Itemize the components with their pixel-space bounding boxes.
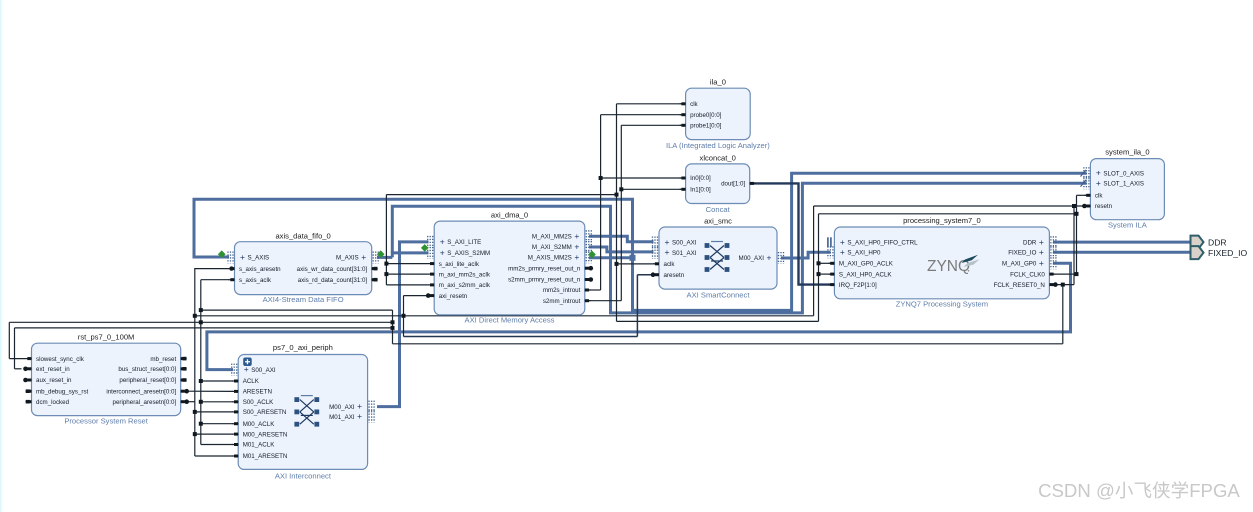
svg-text:FIXED_IO: FIXED_IO xyxy=(1208,248,1247,258)
svg-text:+: + xyxy=(361,252,366,262)
svg-text:+: + xyxy=(1039,258,1044,268)
svg-text:S_AXIS: S_AXIS xyxy=(248,255,270,262)
pin ps7_0_axi_periph.ARESETN xyxy=(232,390,238,392)
wire net clk ila riser xyxy=(616,104,618,322)
status diamond fifo.S_AXIS xyxy=(218,250,226,258)
svg-text:aux_reset_in: aux_reset_in xyxy=(36,377,72,384)
pin axi_dma_0.M_AXIS_MM2S xyxy=(585,251,587,263)
pin rst_ps7_0_100M.aux_reset_in xyxy=(26,379,32,381)
icon periph crossbar xyxy=(294,397,299,402)
pin ps7_0_axi_periph.M00_ARESETN xyxy=(232,433,238,435)
status diamond fifo.M_AXIS xyxy=(377,250,385,258)
svg-text:M_AXIS: M_AXIS xyxy=(336,255,359,262)
pin rst_ps7_0_100M.interconnect_aresetn[0:0] xyxy=(181,390,187,392)
svg-text:xlconcat_0: xlconcat_0 xyxy=(700,153,736,162)
svg-text:aresetn: aresetn xyxy=(664,272,685,279)
svg-text:mb_debug_sys_rst: mb_debug_sys_rst xyxy=(36,388,89,395)
wire net clk trunk lower right xyxy=(617,320,819,322)
wire net periph_aresetn source stub xyxy=(187,401,195,403)
wire net DDR ps7.DDR to external port xyxy=(1053,241,1190,244)
pin rst_ps7_0_100M.bus_struct_reset[0:0] xyxy=(181,368,187,370)
block axis_data_fifo_0 xyxy=(235,242,372,295)
svg-text:ext_reset_in: ext_reset_in xyxy=(36,366,70,373)
svg-text:M_AXIS_MM2S: M_AXIS_MM2S xyxy=(528,255,572,262)
wire net periph_aresetn vertical xyxy=(194,268,196,456)
pin axi_dma_0.S_AXIS_S2MM xyxy=(427,247,429,259)
svg-text:S_AXI_HP0_FIFO_CTRL: S_AXI_HP0_FIFO_CTRL xyxy=(847,240,918,247)
pin system_ila_0.clk xyxy=(1084,194,1090,196)
svg-text:s2mm_prmry_reset_out_n: s2mm_prmry_reset_out_n xyxy=(508,277,581,284)
pin rst_ps7_0_100M.mb_debug_sys_rst xyxy=(26,390,32,392)
svg-text:S00_AXI: S00_AXI xyxy=(251,367,276,374)
svg-text:S_AXI_HP0_ACLK: S_AXI_HP0_ACLK xyxy=(839,271,892,278)
svg-text:ps7_0_axi_periph: ps7_0_axi_periph xyxy=(273,343,333,352)
wire net s2mm_introut to concat.In1 and ila.probe1 xyxy=(589,300,621,302)
pin axi_dma_0.m_axi_s2mm_aclk xyxy=(428,284,434,286)
svg-text:ZYNQ7 Processing System: ZYNQ7 Processing System xyxy=(896,300,988,309)
pin rst_ps7_0_100M.ext_reset_in xyxy=(26,368,32,370)
crossing marks at system_ila SLOT pins xyxy=(1081,170,1087,187)
pin axis_data_fifo_0.s_axis_aresetn xyxy=(229,268,235,270)
pin axi_smc.S01_AXI xyxy=(652,247,654,259)
svg-text:FCLK_CLK0: FCLK_CLK0 xyxy=(1010,271,1045,278)
svg-text:clk: clk xyxy=(1095,193,1103,200)
pin rst_ps7_0_100M.peripheral_reset[0:0] xyxy=(181,379,187,381)
svg-text:S00_AXI: S00_AXI xyxy=(672,240,697,247)
pin xlconcat_0.In0[0:0] xyxy=(680,177,686,179)
pin ps7_0_axi_periph.M01_ARESETN xyxy=(232,455,238,457)
wire net mm2s_stream junction down-right to system_ila.SLOT_0_AXIS xyxy=(633,173,1087,310)
svg-text:system_ila_0: system_ila_0 xyxy=(1105,148,1149,157)
block ps7_0_axi_periph xyxy=(238,355,367,470)
svg-text:M_AXI_MM2S: M_AXI_MM2S xyxy=(532,234,572,241)
svg-text:aclk: aclk xyxy=(664,261,676,268)
svg-text:s2mm_introut: s2mm_introut xyxy=(543,298,581,305)
pin rst_ps7_0_100M.dcm_locked xyxy=(26,401,32,403)
wire net clk periph ACLK branches xyxy=(201,380,233,382)
svg-text:axis_rd_data_count[31:0]: axis_rd_data_count[31:0] xyxy=(298,277,368,284)
wire net aresetn trunk xyxy=(195,315,814,317)
pin ps7_0_axi_periph.S00_ACLK xyxy=(232,401,238,403)
pin ps7_0_axi_periph.ACLK xyxy=(232,380,238,382)
svg-text:interconnect_aresetn[0:0]: interconnect_aresetn[0:0] xyxy=(106,388,176,395)
wire net clk ps7.FCLK_CLK0 to system_ila.clk xyxy=(1053,273,1077,275)
svg-text:M01_ARESETN: M01_ARESETN xyxy=(243,453,288,460)
external port DDR xyxy=(1191,236,1204,249)
pin axis_data_fifo_0.S_AXIS xyxy=(227,252,229,264)
block axi_dma_0 xyxy=(434,221,585,315)
wire net periph_aresetn periph branches xyxy=(195,411,233,413)
pin ps7_0_axi_periph.M00_ACLK xyxy=(232,423,238,425)
svg-text:ILA (Integrated Logic Analyzer: ILA (Integrated Logic Analyzer) xyxy=(666,141,770,150)
svg-text:s_axi_lite_aclk: s_axi_lite_aclk xyxy=(439,261,480,268)
svg-text:FCLK_RESET0_N: FCLK_RESET0_N xyxy=(994,282,1045,289)
pin axi_smc.aresetn xyxy=(653,274,659,276)
svg-text:+: + xyxy=(1039,237,1044,247)
pin ila_0.clk xyxy=(680,103,686,105)
svg-text:axis_wr_data_count[31:0]: axis_wr_data_count[31:0] xyxy=(297,266,368,273)
wire net clk ps7 aclk branches xyxy=(819,262,831,264)
svg-text:M00_ACLK: M00_ACLK xyxy=(243,421,276,428)
wire net smc_m00 smc.M00_AXI to ps7.S_AXI_HP0 xyxy=(781,252,831,258)
wire net clk trunk upper xyxy=(386,194,616,196)
svg-text:rst_ps7_0_100M: rst_ps7_0_100M xyxy=(78,333,135,342)
wire net m_axi_gp0 ps7.M_AXI_GP0 to periph.S00_AXI xyxy=(207,263,1071,369)
wire net clk mid-left link xyxy=(201,309,393,311)
svg-text:+: + xyxy=(357,411,362,421)
svg-text:ila_0: ila_0 xyxy=(710,78,726,87)
svg-text:S01_AXI: S01_AXI xyxy=(672,250,697,257)
wire net clk smc.aclk branch xyxy=(617,263,655,265)
wire net mm2s_stream junction up-left to fifo.S_AXIS xyxy=(194,199,633,257)
pin axi_dma_0.s2mm_prmry_reset_out_n xyxy=(585,279,591,281)
svg-text:+: + xyxy=(767,253,772,263)
svg-text:CSDN @: CSDN @ xyxy=(1038,480,1115,501)
wire net clk fifo.s_axis_aclk branch xyxy=(201,279,229,281)
svg-text:AXI SmartConnect: AXI SmartConnect xyxy=(687,291,751,300)
pin processing_system7_0.S_AXI_HP0_FIFO_CTRL xyxy=(827,237,829,247)
pin system_ila_0.SLOT_1_AXIS xyxy=(1083,177,1085,189)
pin axi_dma_0.s_axi_lite_aclk xyxy=(428,263,434,265)
svg-text:mm2s_prmry_reset_out_n: mm2s_prmry_reset_out_n xyxy=(508,265,581,272)
svg-text:peripheral_aresetn[0:0]: peripheral_aresetn[0:0] xyxy=(113,399,177,406)
svg-text:+: + xyxy=(1096,168,1101,178)
pin axi_smc.S00_AXI xyxy=(652,237,654,249)
pin ps7_0_axi_periph.M01_AXI xyxy=(368,411,370,423)
wire net clk left distribution vertical xyxy=(200,280,202,445)
svg-text:M01_ACLK: M01_ACLK xyxy=(243,442,276,449)
status diamond dma.M_AXIS_MM2S xyxy=(588,251,596,259)
pin axi_smc.M00_AXI xyxy=(778,252,780,264)
svg-text:probe1[0:0]: probe1[0:0] xyxy=(690,123,722,130)
pin ps7_0_axi_periph.S00_AXI xyxy=(231,364,233,376)
svg-text:S00_ARESETN: S00_ARESETN xyxy=(243,409,287,416)
svg-text:M01_AXI: M01_AXI xyxy=(329,414,355,421)
pin processing_system7_0.S_AXI_HP0_ACLK xyxy=(828,273,834,275)
wire net fclk_reset to rst.ext_reset_in xyxy=(15,327,393,329)
pin axi_dma_0.mm2s_introut xyxy=(585,289,591,291)
svg-text:mb_reset: mb_reset xyxy=(150,356,176,363)
pin processing_system7_0.M_AXI_GP0 xyxy=(1050,257,1052,269)
svg-text:+: + xyxy=(574,252,579,262)
svg-text:AXI Direct Memory Access: AXI Direct Memory Access xyxy=(465,316,555,325)
wire net aresetn dma.axi_resetn branch xyxy=(403,296,405,337)
junction dot fifo.s_axis_aresetn pin xyxy=(229,266,233,270)
svg-text:System ILA: System ILA xyxy=(1108,221,1148,230)
svg-text:ARESETN: ARESETN xyxy=(243,389,272,396)
svg-text:M00_ARESETN: M00_ARESETN xyxy=(243,431,288,438)
wire net fclk_reset ps7.FCLK_RESET0_N pin run xyxy=(1053,284,1074,286)
svg-text:Concat: Concat xyxy=(706,205,731,214)
svg-text:axi_smc: axi_smc xyxy=(704,216,732,225)
svg-text:In1[0:0]: In1[0:0] xyxy=(690,187,711,194)
svg-text:FPGA: FPGA xyxy=(1189,480,1240,501)
wire net mm2s_stream dma.M_AXIS_MM2S to junction xyxy=(589,256,633,259)
svg-text:AXI4-Stream Data FIFO: AXI4-Stream Data FIFO xyxy=(263,295,344,304)
wire net mm2s_introut to concat.In0 and ila.probe0 xyxy=(589,289,601,291)
pin axi_dma_0.S_AXI_LITE xyxy=(427,236,429,248)
svg-text:M_AXI_GP0_ACLK: M_AXI_GP0_ACLK xyxy=(839,261,894,268)
svg-text:m_axi_mm2s_aclk: m_axi_mm2s_aclk xyxy=(439,271,491,278)
wire net clk slowest_sync_clk branch xyxy=(9,321,392,323)
svg-text:S00_ACLK: S00_ACLK xyxy=(243,399,274,406)
pin processing_system7_0.M_AXI_GP0_ACLK xyxy=(828,262,834,264)
svg-text:M_AXI_S2MM: M_AXI_S2MM xyxy=(532,244,572,251)
icon periph expand [+] xyxy=(243,358,252,367)
wire net m00_axi periph.M00_AXI to dma.S_AXI_LITE xyxy=(377,242,429,407)
svg-text:ACLK: ACLK xyxy=(243,378,260,385)
wire net fclk_reset bottom trunk xyxy=(393,343,1063,345)
svg-text:ZYNQ: ZYNQ xyxy=(927,258,970,275)
svg-text:Processor System Reset: Processor System Reset xyxy=(64,417,148,426)
pin processing_system7_0.DDR xyxy=(1050,236,1052,248)
wire net interconnect_aresetn rst to periph.ARESETN xyxy=(187,390,233,392)
icon smc crossbar xyxy=(705,243,710,248)
svg-text:axis_data_fifo_0: axis_data_fifo_0 xyxy=(275,232,330,241)
svg-text:+: + xyxy=(1039,247,1044,257)
pin rst_ps7_0_100M.slowest_sync_clk xyxy=(26,358,32,360)
svg-text:+: + xyxy=(574,231,579,241)
svg-text:s_axis_aresetn: s_axis_aresetn xyxy=(239,266,281,273)
svg-text:peripheral_reset[0:0]: peripheral_reset[0:0] xyxy=(119,377,176,384)
wire net aresetn smc branch xyxy=(404,336,638,338)
pin processing_system7_0.FCLK_RESET0_N xyxy=(1049,284,1055,286)
pin axi_dma_0.axi_resetn xyxy=(428,295,434,297)
pin axis_data_fifo_0.axis_rd_data_count[31:0] xyxy=(372,279,378,281)
svg-text:+: + xyxy=(357,401,362,411)
block axi_smc xyxy=(659,227,777,289)
svg-text:FIXED_IO: FIXED_IO xyxy=(1008,250,1036,257)
pin axi_dma_0.mm2s_prmry_reset_out_n xyxy=(585,267,591,269)
svg-text:axi_resetn: axi_resetn xyxy=(439,293,468,300)
junction dots thin nets xyxy=(599,176,603,180)
block xlconcat_0 xyxy=(686,164,750,204)
wire net fifo_m_axis fifo.M_AXIS to junction xyxy=(377,256,392,259)
pin axi_dma_0.m_axi_mm2s_aclk xyxy=(428,273,434,275)
pin system_ila_0.resetn xyxy=(1084,205,1090,207)
svg-text:In0[0:0]: In0[0:0] xyxy=(690,175,711,182)
svg-text:+: + xyxy=(240,252,245,262)
svg-text:AXI Interconnect: AXI Interconnect xyxy=(275,471,332,480)
wire net clk dma aclk riser xyxy=(385,195,387,285)
svg-text:+: + xyxy=(440,247,445,257)
wire net fifo_m_axis junction to system_ila.SLOT_1_AXIS xyxy=(392,183,1086,313)
pin xlconcat_0.In1[0:0] xyxy=(680,188,686,190)
block ila_0 xyxy=(686,88,751,139)
wire net m_axi_mm2s dma.M_AXI_MM2S to smc.S00_AXI xyxy=(589,236,654,242)
svg-text:axi_dma_0: axi_dma_0 xyxy=(491,211,528,220)
svg-text:dout[1:0]: dout[1:0] xyxy=(721,181,745,188)
svg-text:clk: clk xyxy=(690,101,698,108)
svg-text:mm2s_introut: mm2s_introut xyxy=(543,287,581,294)
svg-text:SLOT_1_AXIS: SLOT_1_AXIS xyxy=(1103,181,1144,188)
svg-text:+: + xyxy=(840,247,845,257)
pin axis_data_fifo_0.axis_wr_data_count[31:0] xyxy=(372,268,378,270)
status diamond dma.S_AXIS_S2MM xyxy=(421,244,429,252)
svg-text:DDR: DDR xyxy=(1208,237,1227,247)
pin ila_0.probe1[0:0] xyxy=(680,124,686,126)
pin processing_system7_0.S_AXI_HP0 xyxy=(827,246,829,258)
svg-text:m_axi_s2mm_aclk: m_axi_s2mm_aclk xyxy=(439,282,491,289)
svg-text:S_AXI_HP0: S_AXI_HP0 xyxy=(847,250,881,257)
wire net m_axi_s2mm dma.M_AXI_S2MM to smc.S01_AXI xyxy=(589,247,654,252)
pin axis_data_fifo_0.s_axis_aclk xyxy=(229,279,235,281)
pin system_ila_0.SLOT_0_AXIS xyxy=(1083,167,1085,179)
svg-text:+: + xyxy=(665,237,670,247)
svg-text:+: + xyxy=(840,237,845,247)
svg-text:+: + xyxy=(1096,178,1101,188)
svg-text:+: + xyxy=(665,247,670,257)
svg-text:processing_system7_0: processing_system7_0 xyxy=(903,216,981,225)
svg-text:S_AXI_LITE: S_AXI_LITE xyxy=(447,239,481,246)
svg-text:slowest_sync_clk: slowest_sync_clk xyxy=(36,356,85,363)
wire net fclk_reset riser to system_ila.resetn xyxy=(1073,206,1075,285)
svg-text:s_axis_aclk: s_axis_aclk xyxy=(239,277,272,284)
block processing_system7_0 xyxy=(834,227,1049,299)
wire net irq concat.dout to ps7.IRQ_F2P xyxy=(750,183,831,284)
wire net fifo_m_axis junction to dma.S_AXIS_S2MM xyxy=(392,253,428,258)
external port FIXED_IO xyxy=(1191,246,1204,259)
svg-text:probe0[0:0]: probe0[0:0] xyxy=(690,112,722,119)
svg-text:dcm_locked: dcm_locked xyxy=(36,399,70,406)
block system_ila_0 xyxy=(1090,159,1164,220)
pin axis_data_fifo_0.M_AXIS xyxy=(372,252,374,264)
block rst_ps7_0_100M xyxy=(32,343,181,415)
wire net periph_aresetn fifo branch xyxy=(195,268,229,270)
svg-text:DDR: DDR xyxy=(1023,240,1037,247)
wire net FIXED_IO ps7.FIXED_IO to external port xyxy=(1053,251,1190,254)
svg-text:S_AXIS_S2MM: S_AXIS_S2MM xyxy=(447,250,490,257)
pin ps7_0_axi_periph.M01_ACLK xyxy=(232,444,238,446)
pin ps7_0_axi_periph.M00_AXI xyxy=(368,401,370,413)
pin rst_ps7_0_100M.mb_reset xyxy=(181,358,187,360)
pin processing_system7_0.FCLK_CLK0 xyxy=(1049,273,1055,275)
junction net mm2s_stream xyxy=(630,255,636,261)
pin axi_dma_0.M_AXI_MM2S xyxy=(585,230,587,242)
pin rst_ps7_0_100M.peripheral_aresetn[0:0] xyxy=(181,401,187,403)
pin xlconcat_0.dout[1:0] xyxy=(750,182,756,184)
pin axi_smc.aclk xyxy=(653,263,659,265)
wire net aresetn system_ila.resetn row xyxy=(814,205,1087,207)
wire net aresetn right riser xyxy=(813,206,815,316)
svg-text:M_AXI_GP0: M_AXI_GP0 xyxy=(1002,261,1037,268)
svg-text:bus_struct_reset[0:0]: bus_struct_reset[0:0] xyxy=(118,366,176,373)
svg-text:resetn: resetn xyxy=(1095,203,1113,210)
pin ps7_0_axi_periph.S00_ARESETN xyxy=(232,411,238,413)
svg-text:IRQ_F2P[1:0]: IRQ_F2P[1:0] xyxy=(839,282,877,289)
svg-text:+: + xyxy=(440,236,445,246)
pin ila_0.probe0[0:0] xyxy=(680,114,686,116)
svg-text:+: + xyxy=(574,242,579,252)
svg-text:M00_AXI: M00_AXI xyxy=(739,255,765,262)
pin axi_dma_0.M_AXI_S2MM xyxy=(585,241,587,253)
pin axi_dma_0.s2mm_introut xyxy=(585,300,591,302)
svg-text:SLOT_0_AXIS: SLOT_0_AXIS xyxy=(1103,170,1144,177)
pin processing_system7_0.IRQ_F2P[1:0] xyxy=(828,284,834,286)
svg-text:M00_AXI: M00_AXI xyxy=(329,404,355,411)
pin processing_system7_0.FIXED_IO xyxy=(1050,246,1052,258)
